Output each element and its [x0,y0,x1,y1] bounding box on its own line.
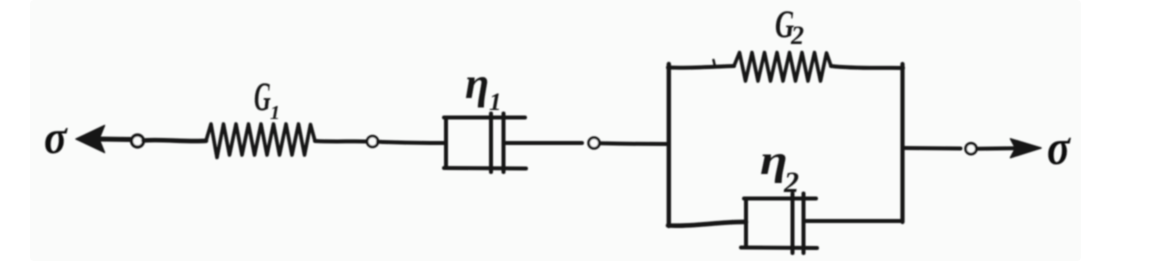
label G1 [254,76,280,124]
Kelvin element left vertical wire [667,64,671,226]
svg-text:η: η [465,59,489,108]
Kelvin element right vertical wire [900,64,904,222]
dashpot eta1 [444,114,526,173]
wire (piston rod) [504,141,583,145]
dashpot eta2 [741,194,817,254]
svg-text:2: 2 [783,166,799,199]
node circle 3 [589,138,600,149]
wire [315,139,367,144]
spring G2 [734,53,831,82]
node circle 4 [966,143,977,154]
right arrow [977,139,1041,158]
wire [144,140,207,141]
svg-text:1: 1 [489,89,502,116]
wire [378,142,446,143]
svg-text:G: G [254,76,271,120]
svg-text:2: 2 [790,21,804,50]
wire (right output) [904,146,961,151]
svg-text:1: 1 [270,102,280,124]
wire [600,141,669,146]
svg-text:σ: σ [1047,121,1072,176]
node circle 2 [367,136,378,147]
label eta1 [465,59,502,116]
wire (bottom-left of parallel branch) [668,222,746,226]
spring G1 [206,124,315,158]
wire (top-right of parallel branch) [831,66,903,68]
svg-text:σ: σ [44,111,68,164]
left arrow [76,126,132,153]
wire (top-left of parallel branch) [668,66,734,68]
wire (piston rod eta2 to right vertical) [804,219,902,223]
node circle 1 [132,135,144,147]
label G2 [775,3,804,50]
label eta2 [760,138,799,199]
